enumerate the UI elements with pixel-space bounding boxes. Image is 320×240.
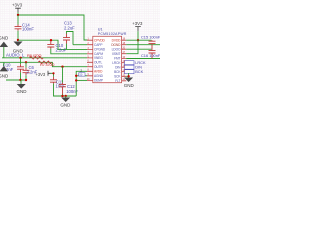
svg-text:VNEG: VNEG	[94, 56, 103, 60]
svg-text:2: 2	[80, 69, 82, 73]
svg-text:R7 470Ω: R7 470Ω	[40, 62, 55, 67]
pin numbers U1 left	[87, 39, 90, 81]
svg-text:XSMT: XSMT	[112, 52, 121, 56]
junction C6 top	[25, 61, 27, 63]
svg-text:C16 100nF: C16 100nF	[141, 53, 160, 58]
wire GND run to CPGND	[18, 40, 87, 49]
wire DGND row	[126, 44, 160, 46]
pin names U1 left column	[94, 39, 106, 83]
power +3V3 top-right P3	[132, 21, 143, 31]
svg-text:DVDD: DVDD	[112, 38, 121, 42]
svg-text:BCK: BCK	[114, 70, 121, 74]
wire +3V3 right stem to XSMT	[126, 31, 138, 54]
ground GND under C14	[13, 42, 24, 54]
node marker near AVDD pin	[79, 69, 85, 77]
junction SCK ground	[127, 75, 129, 77]
wire CAPP row	[73, 44, 87, 46]
junction rail GND stem	[61, 95, 63, 97]
junction rail C6	[25, 79, 27, 81]
pin numbers U1 right	[123, 39, 126, 82]
svg-text:OUTR: OUTR	[94, 65, 103, 69]
svg-text:SCK: SCK	[114, 75, 121, 79]
capacitor C11	[50, 77, 65, 89]
resistor R7	[38, 61, 55, 67]
junction C10 top	[50, 39, 52, 41]
pin stubs U1 right	[122, 40, 127, 81]
svg-text:FMT: FMT	[114, 57, 120, 61]
junction +3V3 AVDD feed	[52, 72, 54, 74]
svg-text:FLT: FLT	[115, 79, 120, 83]
ground GND below left rail	[17, 80, 28, 94]
svg-text:100nF: 100nF	[66, 89, 78, 94]
wire AUDIO_R row	[0, 62, 87, 66]
power +3V3 top-left P1	[12, 2, 23, 12]
pin names U1 right column	[111, 38, 121, 83]
wire C11 down to rail	[54, 84, 77, 96]
junction at C14 ground	[17, 39, 19, 41]
net label DIN	[125, 65, 143, 70]
wire SCK to ground	[126, 73, 128, 76]
net label LRCK	[125, 60, 146, 65]
svg-text:2.2uF: 2.2uF	[56, 47, 67, 52]
ground GND center-bottom	[60, 96, 71, 108]
power +3V3 mid (AVDD) rotated	[36, 71, 51, 77]
wire junction down to C14	[17, 15, 19, 25]
wire top rail to CPVDD corner	[18, 15, 88, 40]
junction C9 top	[19, 57, 21, 59]
capacitor C13 with loop to CAPP	[63, 21, 75, 50]
svg-text:GND: GND	[17, 89, 28, 94]
svg-text:CPVDD: CPVDD	[94, 39, 106, 43]
svg-text:2.2uF: 2.2uF	[64, 26, 75, 31]
svg-text:+3V3: +3V3	[132, 21, 143, 26]
capacitor C9	[3, 58, 25, 80]
wire C14 to GND junction	[17, 31, 19, 40]
capacitor C6	[23, 62, 38, 80]
ground GND left-edge lower (clipped)	[0, 62, 9, 78]
capacitor C12	[59, 67, 79, 94]
ground GND right	[124, 78, 135, 89]
wire LDOO row	[126, 48, 151, 50]
svg-text:CPGND: CPGND	[94, 48, 106, 52]
svg-text:DGND: DGND	[111, 43, 121, 47]
pin stubs U1 left	[87, 40, 93, 80]
junction AGND	[75, 75, 77, 77]
svg-text:CAPP: CAPP	[94, 43, 102, 47]
net label BCK	[125, 69, 144, 74]
wire +3V3 to C11 corner	[51, 73, 54, 77]
svg-text:PCM5102APWR: PCM5102APWR	[98, 32, 127, 36]
junction DEMP	[75, 79, 77, 81]
junction OUTR filter tap	[61, 66, 63, 68]
wire C10 to CAPM row	[51, 49, 87, 54]
capacitor C16	[141, 49, 161, 58]
junction rail GND stem2	[65, 95, 67, 97]
svg-text:GND: GND	[124, 83, 135, 88]
svg-text:DEMP: DEMP	[94, 79, 103, 83]
wire C12 down to rail	[62, 94, 64, 96]
svg-text:OUTL: OUTL	[94, 61, 102, 65]
capacitor C15	[141, 35, 161, 50]
svg-text:AUDIO_L: AUDIO_L	[6, 52, 25, 57]
svg-text:AGND: AGND	[94, 74, 104, 78]
svg-text:C15 100nF: C15 100nF	[141, 35, 160, 40]
wire FMT row	[126, 58, 160, 60]
resistor R8	[27, 53, 43, 59]
junction DVDD power	[137, 39, 139, 41]
junction top-left	[17, 14, 19, 16]
junction rail C9	[19, 79, 21, 81]
wire AGND row	[76, 75, 87, 77]
wire AUDIO_L / VNEG row	[2, 57, 87, 59]
wire AVDD-AGND-DEMP vertical	[76, 71, 87, 96]
capacitor C14	[15, 22, 35, 31]
svg-text:GND: GND	[0, 35, 9, 40]
svg-text:GND: GND	[60, 103, 71, 108]
svg-text:100nF: 100nF	[22, 27, 34, 32]
svg-text:AVDD: AVDD	[94, 70, 103, 74]
svg-text:LDOO: LDOO	[112, 47, 121, 51]
svg-text:BCK: BCK	[135, 69, 143, 74]
svg-text:GND: GND	[0, 73, 9, 78]
svg-text:+3V3: +3V3	[36, 72, 46, 77]
svg-text:U1: U1	[98, 27, 103, 31]
svg-text:LRCK: LRCK	[112, 61, 121, 65]
svg-text:DIN: DIN	[115, 66, 121, 70]
svg-text:+3V3: +3V3	[12, 2, 23, 7]
wire DVDD row	[126, 39, 151, 41]
svg-text:R8 470Ω: R8 470Ω	[27, 53, 42, 58]
capacitor C10	[47, 41, 66, 52]
wire +3V3 stem to junction	[17, 12, 19, 15]
wire DEMP row	[76, 79, 87, 81]
IC U1 PCM5102APWR body	[93, 27, 127, 82]
wire left ground rail	[6, 79, 26, 81]
ground GND left-edge upper (clipped)	[0, 35, 9, 58]
